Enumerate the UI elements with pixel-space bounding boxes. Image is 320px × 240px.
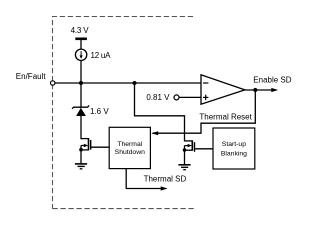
IC boundary (dashed) [53, 17, 197, 209]
Thermal Shutdown block [109, 127, 150, 168]
wire comparator output to Enable SD [245, 89, 274, 91]
supply rail bar 4.3V [75, 37, 87, 40]
svg-text:12 uA: 12 uA [91, 51, 112, 60]
wire En/Fault to comparator minus input [55, 82, 201, 84]
wire zener to Q1 drain [80, 116, 82, 139]
svg-text:4.3 V: 4.3 V [71, 26, 90, 35]
svg-text:Start-up: Start-up [222, 141, 246, 148]
U1 minus sign [203, 82, 208, 84]
transistor Q2 source stub [185, 149, 193, 151]
svg-text:Thermal SD: Thermal SD [144, 174, 187, 183]
svg-text:Thermal: Thermal [117, 141, 142, 148]
transistor Q1 gate wire to Thermal Shutdown [91, 146, 110, 148]
wire current source to En/Fault node [80, 61, 82, 84]
arrow Thermal Reset into Thermal Shutdown [151, 131, 158, 135]
En/Fault terminal [51, 81, 55, 85]
arrow Thermal SD [161, 186, 168, 190]
transistor Q2 bulk arrow [185, 145, 189, 147]
wire Thermal Reset net: output down, left, down into Thermal Shutdown [153, 90, 256, 133]
transistor Q1 channel bar [88, 138, 90, 151]
junction dot Q1 source/bulk [79, 148, 83, 152]
wire 0.81V to comparator plus input [179, 96, 201, 98]
wire supply bar to current source [80, 40, 82, 49]
0.81 V terminal circle [174, 95, 179, 100]
current source I1 circle [75, 49, 86, 60]
svg-text:Shutdown: Shutdown [115, 149, 145, 156]
transistor Q1 drain stub [81, 138, 89, 140]
transistor Q1 bulk arrow [81, 145, 85, 147]
transistor Q2 channel bar [191, 140, 193, 150]
current source I1 arrow (downward) [80, 51, 82, 56]
zener diode D1 cathode bar [72, 106, 89, 109]
svg-text:0.81 V: 0.81 V [146, 93, 170, 102]
junction dot comparator output [253, 88, 257, 92]
zener diode D1 anode triangle [76, 108, 86, 116]
Start-up Blanking block [213, 128, 255, 169]
wire En/Fault node to zener [80, 83, 82, 108]
arrow Enable SD [271, 88, 278, 92]
wire Q2 source to ground [184, 146, 186, 165]
op-amp U1 (thermal reset comparator) [201, 75, 245, 104]
transistor Q2 drain stub [185, 140, 193, 142]
transistor Q1 source stub [81, 149, 89, 151]
transistor Q2 gate bar [194, 142, 196, 152]
ground symbol G2 [178, 165, 190, 170]
U1 plus sign [203, 96, 208, 98]
ground symbol G1 [75, 164, 87, 169]
junction dot node A (supply branch / En/Fault) [79, 81, 83, 85]
wire Q1 source to ground [80, 146, 82, 165]
transistor Q1 gate bar [90, 140, 92, 150]
svg-text:Enable SD: Enable SD [253, 76, 291, 85]
svg-text:Blanking: Blanking [221, 150, 247, 157]
junction dot node B (blanking branch / En/Fault) [133, 81, 137, 85]
wire node B down and over to Q2 drain [135, 83, 185, 142]
svg-text:1.6 V: 1.6 V [90, 107, 109, 116]
wire Thermal Shutdown to Thermal SD output [126, 169, 163, 189]
svg-text:Thermal Reset: Thermal Reset [199, 112, 252, 121]
junction dot Q2 source/bulk [183, 148, 187, 152]
transistor Q2 gate wire to Start-up Blanking [195, 148, 214, 150]
svg-text:En/Fault: En/Fault [16, 72, 47, 81]
